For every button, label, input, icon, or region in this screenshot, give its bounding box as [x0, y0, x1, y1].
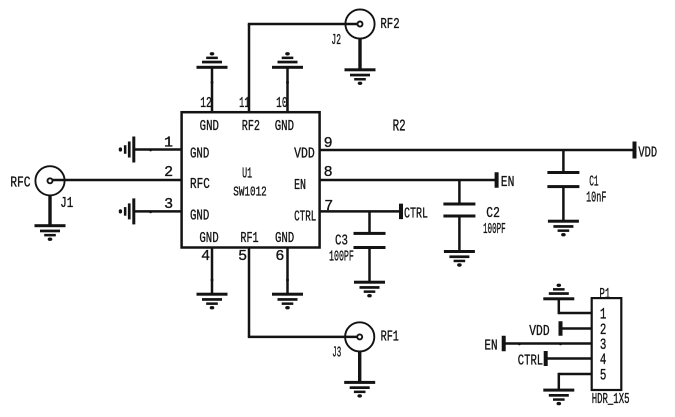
capacitor C3: [354, 232, 386, 249]
svg-text:J1: J1: [60, 195, 73, 212]
pin 6 name GND: [275, 230, 294, 247]
ground at J3: [344, 381, 375, 398]
svg-text:4: 4: [201, 248, 210, 265]
wire pin6 stub: [286, 248, 289, 295]
wire C1 branch top: [562, 150, 565, 173]
wire RF1 net vertical (pin 5): [248, 248, 251, 337]
ground at pin 4: [197, 293, 228, 310]
wire C3 to ground: [368, 248, 371, 283]
pin 3 number: [164, 196, 173, 213]
wire C2 branch top: [458, 180, 461, 204]
node dot pin12 stub: [211, 81, 214, 84]
svg-text:12: 12: [200, 95, 212, 112]
node RF2 label: [380, 16, 399, 33]
ground at pin 3: [119, 198, 136, 224]
P1 refdes label: [599, 286, 610, 303]
ground at pin 1: [119, 137, 136, 163]
svg-text:J3: J3: [332, 345, 341, 362]
svg-text:CTRL: CTRL: [294, 209, 316, 226]
P1 pin 1 number: [600, 306, 607, 324]
svg-text:2: 2: [164, 164, 173, 181]
node dot pin10 stub: [286, 81, 289, 84]
node RFC label: [10, 174, 30, 191]
P1 value label HDR_1X5: [592, 391, 630, 408]
wire pin1 stub: [134, 148, 182, 151]
svg-text:GND: GND: [200, 118, 219, 135]
svg-text:R2: R2: [393, 116, 406, 135]
pin 7 name CTRL: [294, 209, 316, 226]
svg-text:RFC: RFC: [190, 176, 210, 193]
svg-text:10nF: 10nF: [586, 190, 606, 207]
U1 value label SW1012: [233, 184, 267, 200]
node dot P1 pin3 wire b: [559, 343, 562, 346]
pin 12 name GND: [200, 118, 219, 135]
J2 refdes label: [331, 32, 341, 49]
wire pin10 stub: [286, 67, 289, 112]
ground at C2: [444, 250, 475, 267]
node CTRL label: [404, 205, 428, 222]
wire J3 to ground: [358, 352, 361, 383]
svg-text:RF2: RF2: [242, 118, 260, 135]
C3 value label 100PF: [329, 248, 354, 265]
svg-text:GND: GND: [199, 230, 218, 247]
svg-text:8: 8: [324, 164, 333, 181]
pin 8 name EN: [294, 177, 306, 194]
node dot pin3 stub: [149, 210, 152, 213]
pin 4 number: [201, 248, 210, 265]
node dot pin4 stub: [211, 279, 214, 282]
svg-text:EN: EN: [294, 177, 306, 194]
P1 pin 2 number: [600, 321, 607, 339]
svg-text:GND: GND: [190, 145, 209, 162]
ground at P1 pin 1: [543, 284, 574, 301]
ground at pin 6: [272, 293, 303, 310]
pin 1 name GND: [190, 145, 209, 162]
capacitor C2: [443, 203, 475, 218]
pin 12 number: [200, 95, 212, 112]
wire RFC net (J1 to pin 2): [52, 179, 182, 182]
pin 8 number: [324, 164, 333, 181]
pin 11 number: [239, 95, 250, 112]
wire P1 pin4 (CTRL): [546, 357, 592, 360]
port CTRL bar: [399, 204, 403, 220]
port EN bar: [495, 172, 499, 188]
node EN label at P1: [484, 338, 497, 355]
svg-text:CTRL: CTRL: [518, 353, 543, 370]
svg-text:J2: J2: [331, 32, 341, 49]
node RF1 label: [381, 328, 399, 345]
wire C3 branch top: [368, 211, 371, 233]
node dot pin1 stub: [149, 148, 152, 151]
P1 pin 4 number: [600, 351, 607, 369]
C1 refdes label: [589, 174, 598, 191]
port EN bar at P1: [502, 336, 506, 352]
svg-text:U1: U1: [242, 166, 252, 183]
svg-text:C3: C3: [335, 232, 348, 249]
node CTRL label at P1: [518, 353, 543, 370]
pin 10 number: [276, 95, 288, 112]
P1 pin 5 number: [600, 367, 607, 385]
svg-text:RF1: RF1: [240, 230, 258, 247]
svg-text:VDD: VDD: [529, 323, 549, 340]
ground at J1: [35, 224, 66, 241]
wire P1 pin5 vertical: [558, 373, 561, 390]
node EN label: [501, 174, 515, 191]
connector J3: [345, 322, 374, 351]
svg-text:5: 5: [600, 367, 607, 385]
svg-text:EN: EN: [484, 338, 497, 355]
wire pin12 stub: [211, 67, 214, 112]
op-amp U1 SW1012 body: [182, 112, 320, 247]
ground at J2: [345, 68, 376, 85]
pin 5 name RF1: [240, 230, 258, 247]
svg-text:GND: GND: [275, 118, 294, 135]
node dot pin6 stub: [286, 279, 289, 282]
svg-text:RF1: RF1: [381, 328, 399, 345]
wire pin4 stub: [211, 248, 214, 295]
ground at C1: [548, 220, 579, 237]
port VDD bar at P1: [559, 321, 563, 336]
wire J2 to ground: [358, 39, 361, 70]
connector P1 body: [592, 298, 622, 390]
wire C2 to ground: [458, 216, 461, 251]
connector J1: [35, 166, 64, 195]
pin 2 name RFC: [190, 176, 210, 193]
pin 3 name GND: [190, 207, 209, 224]
wire RF1 net horizontal: [248, 336, 358, 339]
pin 9 name VDD: [294, 145, 315, 162]
wire P1 pin3 (EN): [504, 342, 592, 345]
svg-text:CTRL: CTRL: [404, 205, 428, 222]
pin 10 name GND: [275, 118, 294, 135]
ground at pin 10: [272, 52, 303, 69]
pin 7 number: [324, 198, 333, 215]
ground at P1 pin 5: [543, 389, 574, 406]
wire RF2 net vertical (pin 11): [248, 24, 251, 112]
wire RF2 net horizontal: [248, 23, 358, 26]
svg-text:GND: GND: [275, 230, 294, 247]
wire P1 pin1 horizontal: [559, 312, 592, 315]
node VDD label: [638, 144, 657, 161]
wire pin3 stub: [134, 210, 182, 213]
C2 refdes label: [486, 205, 500, 222]
svg-text:100PF: 100PF: [329, 248, 354, 265]
pin 4 name GND: [199, 230, 218, 247]
pin 5 number: [238, 248, 247, 265]
wire P1 pin2 (VDD): [561, 327, 592, 330]
wire EN net (pin 8): [320, 179, 497, 182]
svg-text:P1: P1: [599, 286, 610, 303]
C1 value label 10nF: [586, 190, 606, 207]
ground at pin 12: [197, 52, 228, 69]
node VDD label at P1: [529, 323, 549, 340]
svg-text:HDR_1X5: HDR_1X5: [592, 391, 630, 408]
wire J1 to ground: [48, 195, 51, 225]
port VDD bar: [633, 142, 637, 159]
capacitor C1: [547, 171, 579, 188]
svg-text:VDD: VDD: [638, 144, 657, 161]
pin 11 name RF2: [242, 118, 260, 135]
ground at C3: [354, 281, 385, 298]
connector J2: [345, 9, 374, 38]
svg-text:VDD: VDD: [294, 145, 315, 162]
P1 pin 3 number: [600, 336, 607, 354]
node dot P1 pin3 wire a: [518, 343, 521, 346]
svg-text:EN: EN: [501, 174, 515, 191]
svg-text:RFC: RFC: [10, 174, 30, 191]
svg-text:C1: C1: [589, 174, 598, 191]
svg-text:SW1012: SW1012: [233, 184, 267, 200]
resistor R2 label: [393, 116, 406, 135]
pin 2 number: [164, 164, 173, 181]
C3 refdes label: [335, 232, 348, 249]
svg-text:6: 6: [275, 248, 284, 265]
svg-text:5: 5: [238, 248, 247, 265]
wire P1 pin5 horizontal: [559, 373, 592, 376]
wire C1 to ground: [562, 187, 565, 221]
svg-text:100PF: 100PF: [483, 221, 506, 238]
svg-text:GND: GND: [190, 207, 209, 224]
svg-text:RF2: RF2: [380, 16, 399, 33]
C2 value label 100PF: [483, 221, 506, 238]
wire VDD net (pin 9): [320, 149, 635, 152]
port CTRL bar at P1: [544, 351, 548, 366]
J1 refdes label: [60, 195, 73, 212]
U1 refdes label: [242, 166, 252, 183]
J3 refdes label: [332, 345, 341, 362]
wire CTRL net (pin 7): [320, 210, 401, 213]
pin 9 number: [324, 135, 333, 152]
wire P1 pin1 vertical: [558, 299, 561, 314]
pin 1 number: [164, 135, 173, 152]
svg-text:10: 10: [276, 95, 288, 112]
pin 6 number: [275, 248, 284, 265]
svg-text:C2: C2: [486, 205, 500, 222]
